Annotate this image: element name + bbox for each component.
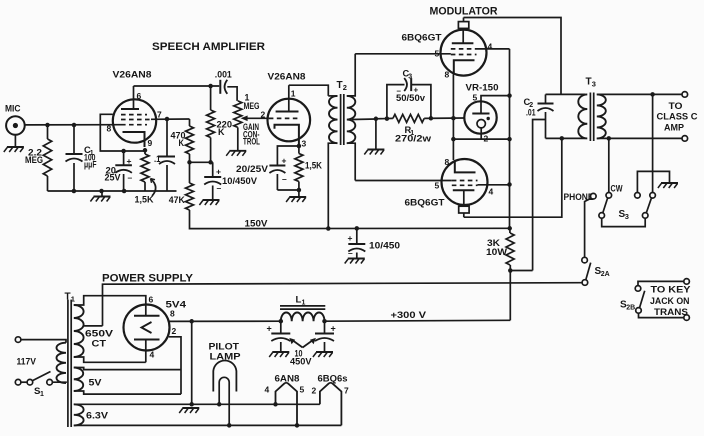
contact S1 mid [27,379,33,385]
svg-text:650V: 650V [85,329,114,339]
svg-text:3: 3 [625,212,629,221]
svg-text:+: + [267,324,272,334]
svg-text:6BQ6GT: 6BQ6GT [402,33,442,43]
svg-text:6: 6 [149,295,154,305]
svg-text:+: + [331,324,336,334]
node plate feed [560,136,565,141]
terminal key top [684,279,690,285]
node lamp right [227,423,232,428]
svg-text:6BQ6s: 6BQ6s [318,374,348,384]
node U3 pin4 [507,182,512,187]
terminal phone [591,193,597,199]
svg-text:2: 2 [312,386,317,396]
potentiometer 1 MEG gain control [234,93,266,151]
contact S3 right lower [642,213,648,219]
ground power supply [179,408,199,413]
svg-text:8: 8 [107,124,112,134]
label 150V [245,219,269,229]
contact S2A upper [582,257,588,263]
speech amplifier title [152,41,265,53]
capacitor filter left 10/450V [267,321,291,351]
wire pin8 out [168,320,170,322]
ground S3 [658,183,678,188]
svg-text:AMP: AMP [664,122,684,132]
node cathode line 2 [451,137,456,142]
capacitor C1 100uuF [66,125,97,191]
tube V2 V26AN8 envelope [268,72,311,142]
label S1 [34,386,44,398]
svg-text:PHONE: PHONE [564,192,594,202]
choke L1 [280,295,325,322]
arm S3 left [603,198,608,213]
capacitor .001 [215,70,232,94]
terminal 117V top [15,337,21,343]
label S2A [595,266,610,278]
node mic-R input [45,123,50,128]
svg-text:TO: TO [669,101,683,111]
tube U3 6BQ6GT envelope [405,159,488,208]
wire S3 bottom link [602,218,646,226]
svg-text:+: + [414,86,419,95]
pilot lamp label [209,342,241,362]
node CT ground [374,117,379,122]
gain control label [243,122,260,147]
pin 8 label U3 [445,157,450,167]
label 117V [17,357,37,367]
svg-text:V26AN8: V26AN8 [268,72,306,82]
wire U3 pin4 [478,184,510,186]
wire S3 ground branch [637,171,669,192]
contact S3 right upper A [635,193,641,199]
svg-text:K: K [218,127,225,137]
svg-text:+: + [282,156,287,166]
node cathode line R1 [451,116,456,121]
svg-text:–: – [217,183,222,193]
node V1 bypass [121,149,126,154]
svg-text:20/25V: 20/25V [236,164,268,174]
node L1 left [279,319,284,324]
capacitor 20/25V stage1 [105,151,133,191]
wire 150V rail [192,227,510,229]
resistor 1.5K stage2 [295,146,323,190]
pin 2 heater label [312,386,317,396]
pin 9 label V1 [148,138,153,148]
pin 2 VR-150 [481,128,488,144]
node C3 right [429,116,434,121]
svg-text:4: 4 [489,187,494,197]
wire mic to grid [25,124,121,126]
svg-text:5: 5 [435,49,440,59]
pin 8 label U2 [445,70,450,80]
pin 5 heater label [300,385,305,395]
contact CW [606,193,612,199]
capacitor filter right 10/450V [315,321,336,351]
pin 6 label V1 [137,91,142,101]
svg-text:10/450: 10/450 [369,241,400,251]
pot wiper arrow [241,116,269,122]
tube V2 plate [276,85,299,111]
transformer T1 5V winding [74,368,181,395]
power supply title [102,273,193,285]
pilot lamp bulb [213,360,236,391]
wire CT stub [84,325,103,327]
svg-text:.001: .001 [215,70,232,80]
arm S2B [640,291,645,308]
svg-text:6: 6 [137,91,142,101]
arrows filter caps [289,338,316,348]
wire R1 line right [424,117,464,119]
svg-text:25V: 25V [105,173,121,183]
modulator title [430,6,498,18]
pin 3 label V2 [302,139,307,149]
tube U2 plate [452,28,474,43]
node 150V 3K junction [507,226,512,231]
pin 5 label U3 [435,181,440,191]
ground center tap [364,119,384,155]
wire cathode vertical [452,75,454,161]
transformer T2 label [337,80,347,92]
svg-text:+: + [216,167,221,177]
tube U2 top cap [458,18,468,29]
tube 5V4 filament [142,322,152,333]
wire S3 right up [652,94,654,192]
terminal class C bottom [682,136,688,142]
svg-text:1,5K: 1,5K [135,195,155,205]
wire T2 sec bottom to U3 pin5 [355,180,452,182]
wire S1 link [21,381,27,383]
svg-text:4: 4 [488,42,493,52]
tube 5V4 plate top [134,305,160,316]
resistor 470K [171,119,194,162]
svg-text:5: 5 [473,93,478,103]
node T2 primary bottom [326,226,331,231]
tube V2 cathode [275,125,299,146]
arm S3 right [646,198,651,213]
svg-text:6BQ6GT: 6BQ6GT [405,198,445,208]
tube V1 V26AN8 envelope [113,70,157,143]
pin 8 label [170,309,175,319]
node pin4 line mid [507,137,512,142]
pin 7 label V1 [157,110,162,120]
svg-text:PILOT: PILOT [209,342,240,352]
node V2 cathode [297,144,302,149]
svg-text:7: 7 [344,386,349,396]
wire C2 bottom side [546,137,586,139]
tube VR-150 envelope [464,83,498,134]
to key jack label [650,285,691,317]
svg-text:SPEECH AMPLIFIER: SPEECH AMPLIFIER [152,41,265,53]
wire T3 sec bottom [597,137,682,139]
wire V1 screen loop [100,114,123,151]
resistor 220K [207,86,233,162]
transformer T3 core [590,93,593,142]
svg-text:5V: 5V [89,378,103,388]
label filter caps [290,349,312,367]
node VR pin5 junction [507,93,512,98]
svg-text:4: 4 [150,350,155,360]
pin 5 label U2 [435,49,440,59]
svg-text:8: 8 [170,309,175,319]
svg-text:1: 1 [301,300,305,307]
svg-text:4: 4 [265,385,270,395]
wire V1 plate top [134,85,220,87]
pin 4 heater label [265,385,270,395]
wire T2 center tap [352,118,376,121]
svg-text:3: 3 [408,74,412,81]
pin 4 label [150,350,155,360]
svg-text:T: T [337,80,343,91]
pin 7 heater label [344,386,349,396]
node filter cap 150V [355,226,360,231]
transformer T1 6.3V winding [74,404,342,425]
resistor 2.2 MEG [25,125,52,191]
resistor 47K [169,162,194,228]
svg-text:5V4: 5V4 [166,300,187,311]
svg-text:.01: .01 [526,108,536,118]
svg-text:2: 2 [343,83,347,92]
wire .001 to pot [227,87,237,101]
tube V1 grid dashes [121,115,151,125]
svg-text:8: 8 [445,70,450,80]
svg-text:.1: .1 [154,154,161,164]
arm S2A [586,263,591,280]
pin 4 label U3 [489,187,494,197]
node T3 bottom tap [607,136,612,141]
tube U3 plate [453,190,475,206]
wire pin 4 down [145,350,147,362]
svg-text:MEG: MEG [25,155,43,165]
wire U2 pin4 [477,48,510,50]
node 220K bottom [208,160,213,165]
label +300V [391,310,427,320]
svg-text:7: 7 [157,110,162,120]
ground filter cap 150V [345,259,365,264]
contact S3 right upper B [650,193,656,199]
heater 6BQ6s [320,383,342,426]
svg-text:+: + [127,156,132,166]
node 6.3V gnd [189,402,194,407]
svg-text:5: 5 [435,181,440,191]
wire divider node [190,161,213,163]
wire 5V return up [191,321,193,404]
svg-text:POWER SUPPLY: POWER SUPPLY [102,273,193,285]
heater 6AN8 [276,383,298,426]
svg-text:3: 3 [592,80,596,89]
tube U3 top cap [459,206,469,217]
contact S2B lower [636,308,642,314]
tube 5V4 envelope [124,300,187,351]
label S2B [620,300,635,312]
tube U2 cathode [454,60,475,74]
transformer T2 primary [328,96,337,229]
node 220K top [208,84,213,89]
wire b-plus from rectifier [170,320,281,322]
node pin7 [165,117,170,122]
ground V2 cathode [286,190,306,202]
svg-text:8: 8 [445,157,450,167]
svg-text:150V: 150V [245,219,269,229]
wire mic to ground [14,135,16,147]
terminal class C top [682,92,688,98]
to class C amp label [657,101,699,132]
resistor R1 270/2w [393,114,431,143]
ground filter right [313,352,333,357]
capacitor 10/450 on rail [348,228,401,258]
wire V2 cathode branch [277,146,299,166]
svg-text:–: – [348,248,353,258]
pin 4 label U2 [488,42,493,52]
wire CW contact up [608,138,610,192]
ground rail stage1 [90,191,110,202]
tube U3 grids [452,181,478,186]
capacitor .1 [154,119,175,191]
label 6.3V [86,411,109,421]
VR-150 anode ring [477,117,490,128]
resistor 3K 10W [486,228,514,270]
capacitor C2 .01 [524,94,554,138]
wire S2B bottom [639,313,684,317]
wire U3 grid cap line [464,138,562,217]
svg-text:JACK ON: JACK ON [650,296,690,306]
node heater 6AN8 pin5 [295,423,300,428]
svg-text:1,5K: 1,5K [305,160,323,170]
VR-150 cathode bar [472,113,489,115]
tube U3 cathode [455,160,476,172]
svg-text:2: 2 [172,326,177,336]
arm S1 [32,372,50,381]
resistor 1.5K stage1 [135,151,155,205]
contact S2A lower [582,280,588,286]
pin 2 label [172,326,177,336]
contact S2B upper [635,286,641,292]
capacitor 20/25V stage2 [236,156,287,191]
svg-text:2B: 2B [626,305,635,312]
label 6AN8 [275,374,300,384]
wire pin 2 to 5V [169,337,181,394]
svg-text:μμF: μμF [84,160,97,170]
contact S3 left lower [599,213,605,219]
wire CT keying line [103,283,583,326]
svg-text:CLASS C: CLASS C [657,112,699,122]
svg-text:–: – [128,173,133,183]
node V2 ground [297,188,302,193]
node C3 left [385,116,390,121]
svg-text:+300 V: +300 V [391,310,427,320]
wire V2 plate to T2 [289,85,329,96]
terminal key bottom [684,315,690,321]
svg-text:1: 1 [291,89,296,99]
ground 10/450V stage1 [199,200,219,205]
svg-text:T: T [586,77,592,88]
wire U2 plate line [464,18,562,95]
wire 3K to feed [510,270,532,272]
svg-text:VR-150: VR-150 [466,83,499,93]
wire lamp left lead [218,392,220,405]
label CW [611,184,624,194]
wire phone down [585,198,592,257]
label 5V [89,378,103,388]
terminal 117V bottom [15,379,21,385]
node heater 6AN8 pin4 [273,402,278,407]
ground gain pot [226,151,246,156]
wire ground rail stage1 [48,189,177,194]
transformer T3 label [586,77,596,89]
svg-text:CT: CT [92,339,107,349]
pin 5 VR-150 [473,93,510,114]
wire 3K to b-plus [509,271,511,321]
tube V2 grid dashes [269,117,301,119]
svg-text:V26AN8: V26AN8 [113,70,152,80]
transformer T1 650V winding [74,296,146,363]
transformer T1 label [65,292,75,304]
arrow 1.5K pointer [151,179,156,197]
svg-text:–: – [397,87,402,96]
wire R1 line left [376,117,393,119]
svg-text:10/450V: 10/450V [222,176,257,186]
pin 6 label [149,295,154,305]
svg-text:117V: 117V [17,357,37,367]
svg-text:2A: 2A [601,271,610,278]
wire b-plus feed up [533,120,546,271]
transformer T3 secondary [597,94,606,138]
svg-text:–: – [282,174,287,184]
svg-text:450V: 450V [290,357,312,367]
wire S2B top [638,281,684,285]
svg-text:MODULATOR: MODULATOR [430,6,498,18]
wire cathode to pin4 line [453,138,509,140]
wire T2 sec top to U2 pin5 [355,53,451,55]
svg-text:1: 1 [40,391,44,398]
node 3K bottom [508,268,513,273]
ground mic [4,147,24,152]
svg-text:47K: 47K [169,195,186,205]
ground filter left [269,352,289,357]
svg-text:TO KEY: TO KEY [651,285,691,295]
svg-text:CW: CW [611,184,624,194]
transformer T1 primary [21,340,66,383]
wire lamp right lead [228,392,230,426]
label PHONE [564,192,594,202]
tube V1 cathode [123,132,145,147]
transformer T3 primary [578,94,587,138]
svg-text:MIC: MIC [5,104,21,114]
svg-text:10W: 10W [486,247,508,257]
node 470K bottom [187,160,192,165]
wire pin4 vertical [509,49,511,229]
node 5V return [189,319,194,324]
label 650V CT [85,329,114,349]
wire V1 cathode node [124,150,145,152]
svg-text:270/2w: 270/2w [395,134,431,144]
capacitor 10/450V stage1 [204,162,257,199]
node C1 input [72,123,77,128]
wire T3 sec top [597,93,682,95]
svg-text:+: + [348,233,353,243]
wire C2 top side [546,93,586,95]
wire plus300 line [325,319,511,322]
svg-text:MEG: MEG [244,101,260,111]
svg-text:6.3V: 6.3V [86,411,109,421]
wire V2 cathode ground node [277,189,299,191]
wire V1 pin7 [151,118,190,120]
mic jack J1 [5,104,25,135]
node T3 top tap [650,92,655,97]
label 6BQ6s [318,374,348,384]
transformer T2 secondary [347,54,356,181]
svg-text:TRANS: TRANS [654,307,688,317]
tube 5V4 plate bottom [134,340,160,351]
tube U2 6BQ6GT envelope [402,30,487,76]
